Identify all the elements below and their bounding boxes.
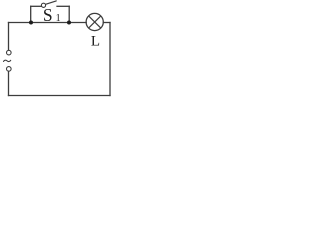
svg-text:S: S: [43, 5, 53, 25]
lamp L cross diagonal 1: [89, 16, 101, 28]
wire right vertical: [109, 23, 111, 96]
wire switch branch top-right horizontal: [57, 5, 69, 7]
wire left vertical lower (from source terminal): [8, 71, 10, 95]
AC source terminal circle top: [7, 50, 12, 55]
wire switch branch right vertical: [68, 6, 70, 22]
node A junction dot (left): [29, 21, 33, 25]
wire top main (node A to lamp): [9, 22, 87, 24]
lamp L circle: [86, 13, 103, 30]
switch S1 blade: [46, 1, 57, 4]
wire lamp to top-right corner: [103, 22, 110, 24]
wire switch branch left vertical: [30, 6, 32, 22]
node B junction dot (right): [67, 21, 71, 25]
wire left vertical upper (to source terminal): [8, 23, 10, 51]
AC source terminal circle bottom: [7, 67, 12, 72]
AC source tilde symbol: [4, 60, 11, 61]
wire switch branch top-left horizontal: [31, 5, 42, 7]
svg-text:L: L: [91, 34, 100, 50]
svg-text:1: 1: [56, 13, 61, 24]
wire bottom: [9, 95, 111, 97]
switch S1 pivot circle: [41, 3, 45, 7]
lamp L cross diagonal 2: [89, 16, 101, 28]
